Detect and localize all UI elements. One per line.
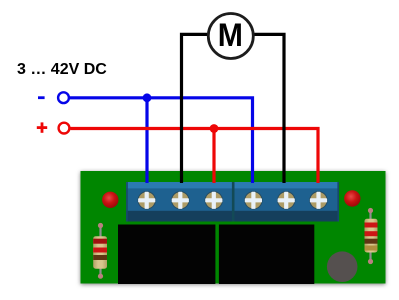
svg-text:3 … 42V DC: 3 … 42V DC	[17, 61, 107, 78]
svg-text:M: M	[218, 17, 243, 53]
